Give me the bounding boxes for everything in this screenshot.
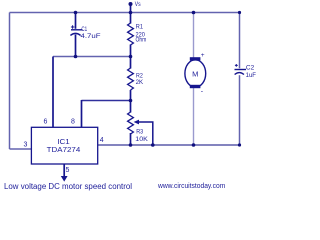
wire motor top: [193, 13, 195, 58]
wire top rail Vs: [10, 12, 240, 14]
svg-text:C2: C2: [246, 64, 255, 71]
svg-text:TDA7274: TDA7274: [47, 147, 81, 154]
potentiometer R3 zigzag: [128, 112, 134, 134]
node wiper-bottom: [151, 143, 155, 147]
svg-text:Vs: Vs: [135, 1, 141, 8]
node R1-R2: [129, 55, 133, 59]
svg-text:4: 4: [100, 137, 104, 144]
node toprail-right corner: [238, 11, 241, 14]
potentiometer R3 wiper arrow: [134, 120, 139, 125]
node R1-toprail: [129, 11, 133, 15]
node C1-toprail: [74, 11, 78, 15]
svg-text:R3: R3: [136, 128, 143, 135]
capacitor C1 plates: [71, 29, 83, 31]
node motor-toprail: [192, 11, 196, 15]
resistor R2: [128, 68, 134, 90]
wire left vertical: [9, 13, 11, 150]
svg-text:C1: C1: [81, 26, 87, 33]
node Vs terminal dot: [129, 2, 133, 6]
resistor R1: [128, 23, 134, 45]
wire right rail upper: [239, 13, 241, 69]
svg-text:www.circuitstoday.com: www.circuitstoday.com: [157, 183, 225, 190]
motor brush bottom: [190, 85, 201, 88]
node R3-bottom: [129, 143, 133, 147]
wire Vs stub and R1 top lead: [130, 4, 132, 24]
wire R3 wiper: [137, 122, 153, 145]
wire y100 pin8 to R2-R3 node: [82, 100, 131, 102]
motor M body: [185, 60, 206, 87]
capacitor C1 plus: [71, 25, 74, 28]
svg-text:1uF: 1uF: [246, 72, 256, 79]
node bottom-right corner: [238, 143, 241, 146]
svg-text:8: 8: [71, 119, 75, 126]
wire pin8 vertical: [81, 100, 83, 127]
svg-text:6: 6: [44, 119, 48, 126]
wire pin6 vertical: [52, 57, 54, 128]
capacitor C2 plus: [235, 64, 238, 67]
ground arrow pin5: [61, 176, 68, 182]
wire C1 top lead: [75, 13, 77, 29]
capacitor C2 plates: [235, 69, 247, 71]
svg-text:M: M: [192, 69, 198, 78]
svg-text:5: 5: [66, 167, 70, 174]
wire R3 bottom lead: [130, 133, 132, 145]
wire right rail lower: [239, 75, 241, 145]
motor brush top: [190, 57, 201, 60]
svg-text:10K: 10K: [135, 136, 148, 143]
svg-text:4.7uF: 4.7uF: [81, 33, 101, 40]
wire motor bottom: [193, 88, 195, 145]
svg-text:3: 3: [24, 142, 28, 149]
node C1-y57: [74, 55, 78, 59]
svg-text:IC1: IC1: [57, 139, 70, 146]
wire pin5 ground lead: [63, 164, 65, 177]
svg-text:+: +: [201, 52, 205, 59]
svg-text:Low voltage DC motor speed con: Low voltage DC motor speed control: [4, 182, 132, 191]
svg-text:R1: R1: [136, 23, 144, 30]
node R2-R3: [129, 99, 133, 103]
wire C1 bottom lead: [75, 35, 77, 57]
op-amp-ic U1 box IC1 TDA7274: [31, 127, 97, 164]
wire y57 pin6 to R1-R2 node: [53, 56, 131, 58]
node motor-bottom: [192, 143, 196, 147]
svg-text:-: -: [201, 89, 204, 96]
wire bottom rail pin4: [98, 144, 240, 146]
svg-text:2K: 2K: [136, 79, 144, 86]
wire R1 bottom lead to node: [130, 45, 132, 69]
svg-text:Ohm: Ohm: [136, 37, 147, 44]
wire pin3 horizontal: [10, 148, 32, 150]
wire R2 bottom lead to node: [130, 90, 132, 113]
